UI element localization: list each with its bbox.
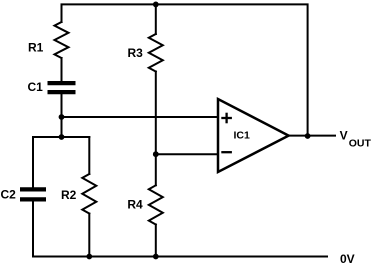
- svg-text:R4: R4: [127, 198, 143, 212]
- svg-text:R1: R1: [28, 41, 44, 55]
- svg-text:OUT: OUT: [349, 137, 371, 149]
- svg-text:IC1: IC1: [234, 130, 251, 142]
- svg-text:R3: R3: [128, 46, 144, 60]
- svg-text:V: V: [340, 129, 348, 143]
- svg-text:C1: C1: [28, 80, 44, 94]
- svg-text:0V: 0V: [340, 252, 355, 266]
- svg-text:C2: C2: [1, 187, 17, 201]
- svg-text:R2: R2: [61, 188, 77, 202]
